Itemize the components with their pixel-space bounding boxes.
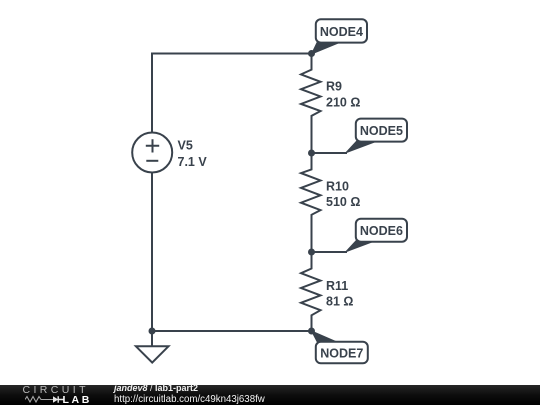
svg-text:81 Ω: 81 Ω: [326, 295, 353, 309]
svg-text:R11: R11: [326, 279, 348, 293]
svg-text:R9: R9: [326, 80, 342, 94]
svg-text:510 Ω: 510 Ω: [326, 195, 360, 209]
svg-text:NODE4: NODE4: [320, 25, 363, 39]
svg-text:210 Ω: 210 Ω: [326, 95, 360, 109]
svg-text:NODE7: NODE7: [320, 346, 363, 360]
svg-text:7.1 V: 7.1 V: [178, 155, 208, 169]
svg-text:NODE5: NODE5: [360, 124, 403, 138]
svg-text:R10: R10: [326, 180, 349, 194]
svg-text:V5: V5: [178, 139, 193, 153]
svg-text:NODE6: NODE6: [360, 224, 403, 238]
